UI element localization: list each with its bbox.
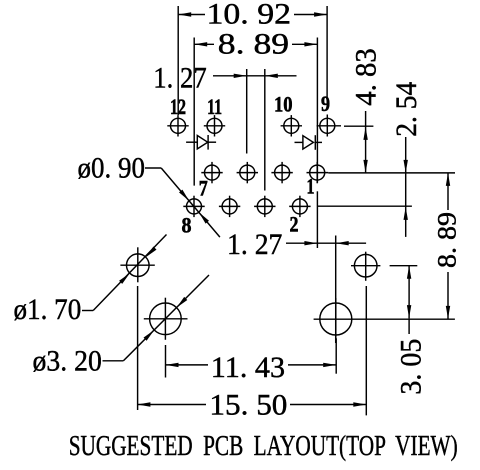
dimension 10.92 extension line right (pad 9 column): [326, 6, 328, 98]
dimension 8.89 right arrow down: [446, 306, 450, 319]
pad row3 col2: [219, 196, 240, 217]
dimension 8.89 top arrow right: [304, 42, 317, 46]
leader ø0.90 horizontal segment: [145, 167, 161, 169]
svg-text:ø3. 20: ø3. 20: [33, 345, 102, 378]
dimension 1.27 top extension line right (row3 col3 pad column): [264, 69, 266, 191]
dimension 8.89 top dimension line: [194, 43, 214, 45]
svg-text:4. 83: 4. 83: [350, 48, 383, 105]
dimension 3.05 arrow down: [407, 305, 411, 318]
svg-text:1: 1: [307, 174, 315, 199]
dimension 3.05 dimension line: [408, 266, 410, 318]
leader ø1.70 arrow lower-left: [119, 273, 130, 284]
mounting hole ø3.20 left: [144, 298, 188, 340]
leader ø0.90 arrow lower-right: [199, 212, 209, 223]
dimension 8.89 top extension line left (pad 8 column): [193, 38, 195, 186]
svg-text:2: 2: [290, 212, 299, 237]
mounting hole ø3.20 right: [314, 298, 455, 343]
dimension 10.92 extension line left (pad 12 column): [177, 6, 179, 115]
dimension 1.27 lower arrow left: [304, 241, 317, 245]
dimension 1.27 lower extension line left (pad 1 column): [316, 191, 318, 248]
dimension 2.54 arrow up at row3: [404, 207, 408, 220]
dimension 10.92 arrow left: [178, 12, 191, 16]
dimension 4.83 arrow up: [363, 127, 367, 140]
dimension 1.27 top arrow right: [265, 74, 278, 78]
dimension 8.89 top extension line right (pad 1 column): [316, 38, 318, 183]
LED diode symbol left: [186, 135, 216, 150]
svg-text:1. 27: 1. 27: [227, 228, 282, 261]
leader ø3.20 arrow lower-left: [144, 330, 155, 341]
leader ø1.70 horizontal segment: [82, 310, 93, 312]
pad 12: [167, 115, 188, 136]
extension line right small hole column to 15.50: [365, 286, 367, 415]
pad row2 col3: [271, 162, 292, 183]
svg-text:3. 05: 3. 05: [395, 339, 428, 395]
extension line left small hole column to 15.50: [137, 286, 139, 410]
svg-text:8: 8: [182, 213, 192, 238]
svg-text:15. 50: 15. 50: [209, 389, 287, 422]
svg-text:8. 89: 8. 89: [432, 212, 462, 268]
svg-text:ø1. 70: ø1. 70: [14, 293, 82, 326]
svg-text:12: 12: [170, 94, 186, 119]
pad 8: [183, 196, 204, 217]
svg-text:8. 89: 8. 89: [218, 28, 289, 61]
svg-text:10: 10: [274, 91, 293, 116]
dimension 11.43 arrow left: [166, 363, 179, 367]
dimension 15.50 arrow right: [353, 402, 366, 406]
dimension 1.27 lower extension line right (big hole column): [335, 236, 337, 344]
leader ø0.90 diagonal through pad 8: [161, 168, 220, 237]
leader ø1.70 diagonal through left small hole: [93, 235, 166, 311]
leader ø1.70 arrow upper-right: [146, 247, 157, 258]
mounting hole ø1.70 left: [120, 247, 154, 282]
dimension 4.83 arrow down: [363, 160, 367, 173]
pad 11: [204, 115, 225, 136]
dimension 8.89 right dimension line: [447, 173, 449, 210]
svg-text:SUGGESTED PCB LAYOUT(TOP VIEW): SUGGESTED PCB LAYOUT(TOP VIEW): [69, 430, 458, 462]
dimension 2.54 arrow down at row2: [404, 160, 408, 173]
dimension 1.27 top dimension line: [213, 75, 297, 77]
dimension 15.50 arrow left: [137, 402, 150, 406]
dimension 1.27 lower arrow right: [336, 241, 349, 245]
leader ø3.20 diagonal through left big hole: [123, 275, 209, 361]
pad 10: [281, 115, 302, 136]
dimension 11.43 dimension line: [166, 364, 209, 366]
extension line small hole right row for 3.05: [390, 265, 418, 267]
mounting hole ø1.70 right: [351, 252, 380, 281]
pad row2 col2: [237, 162, 258, 183]
leader ø3.20 arrow upper-right: [177, 297, 188, 308]
dimension 8.89 top arrow left: [194, 42, 207, 46]
svg-text:10. 92: 10. 92: [207, 0, 292, 31]
pad row3 col3: [254, 196, 275, 217]
leader ø3.20 horizontal segment: [103, 360, 124, 362]
extension line pad9 row to 4.83 dimension: [344, 125, 373, 127]
LED diode symbol right: [295, 135, 323, 150]
dimension 1.27 top arrow left: [234, 74, 247, 78]
dimension 2.54 dimension line: [405, 137, 407, 237]
pad 1: [307, 162, 329, 183]
svg-text:1. 27: 1. 27: [153, 62, 206, 95]
row 3 extension line to right dimensions: [317, 205, 412, 207]
pad 9: [317, 115, 341, 137]
row 2 extension line to right dimensions: [328, 172, 455, 174]
dimension 3.05 arrow up: [407, 266, 411, 279]
dimension 4.83 dimension line: [365, 111, 367, 173]
dimension 3.05 tail to text: [408, 318, 410, 334]
svg-text:11: 11: [207, 94, 222, 119]
dimension 15.50 dimension line: [137, 404, 206, 406]
pad 7: [201, 162, 222, 183]
leader ø0.90 arrow upper-left: [179, 190, 189, 201]
extension line right big hole column to 11.43: [335, 338, 337, 373]
dimension 1.27 lower dimension line: [286, 242, 366, 244]
dimension 8.89 right arrow up: [446, 173, 450, 186]
svg-text:11. 43: 11. 43: [211, 351, 285, 384]
extension line left big hole column to 11.43: [165, 345, 167, 378]
svg-text:9: 9: [321, 91, 330, 116]
svg-text:7: 7: [199, 176, 208, 201]
pad 2: [289, 196, 310, 217]
dimension 1.27 top extension line left (row2 col2 pad column): [246, 69, 248, 154]
svg-text:ø0. 90: ø0. 90: [78, 152, 146, 185]
dimension 10.92 arrow right: [314, 12, 327, 16]
dimension 10.92 dimension line: [178, 14, 205, 16]
dimension 11.43 arrow right: [323, 363, 336, 367]
svg-text:2. 54: 2. 54: [390, 82, 423, 137]
